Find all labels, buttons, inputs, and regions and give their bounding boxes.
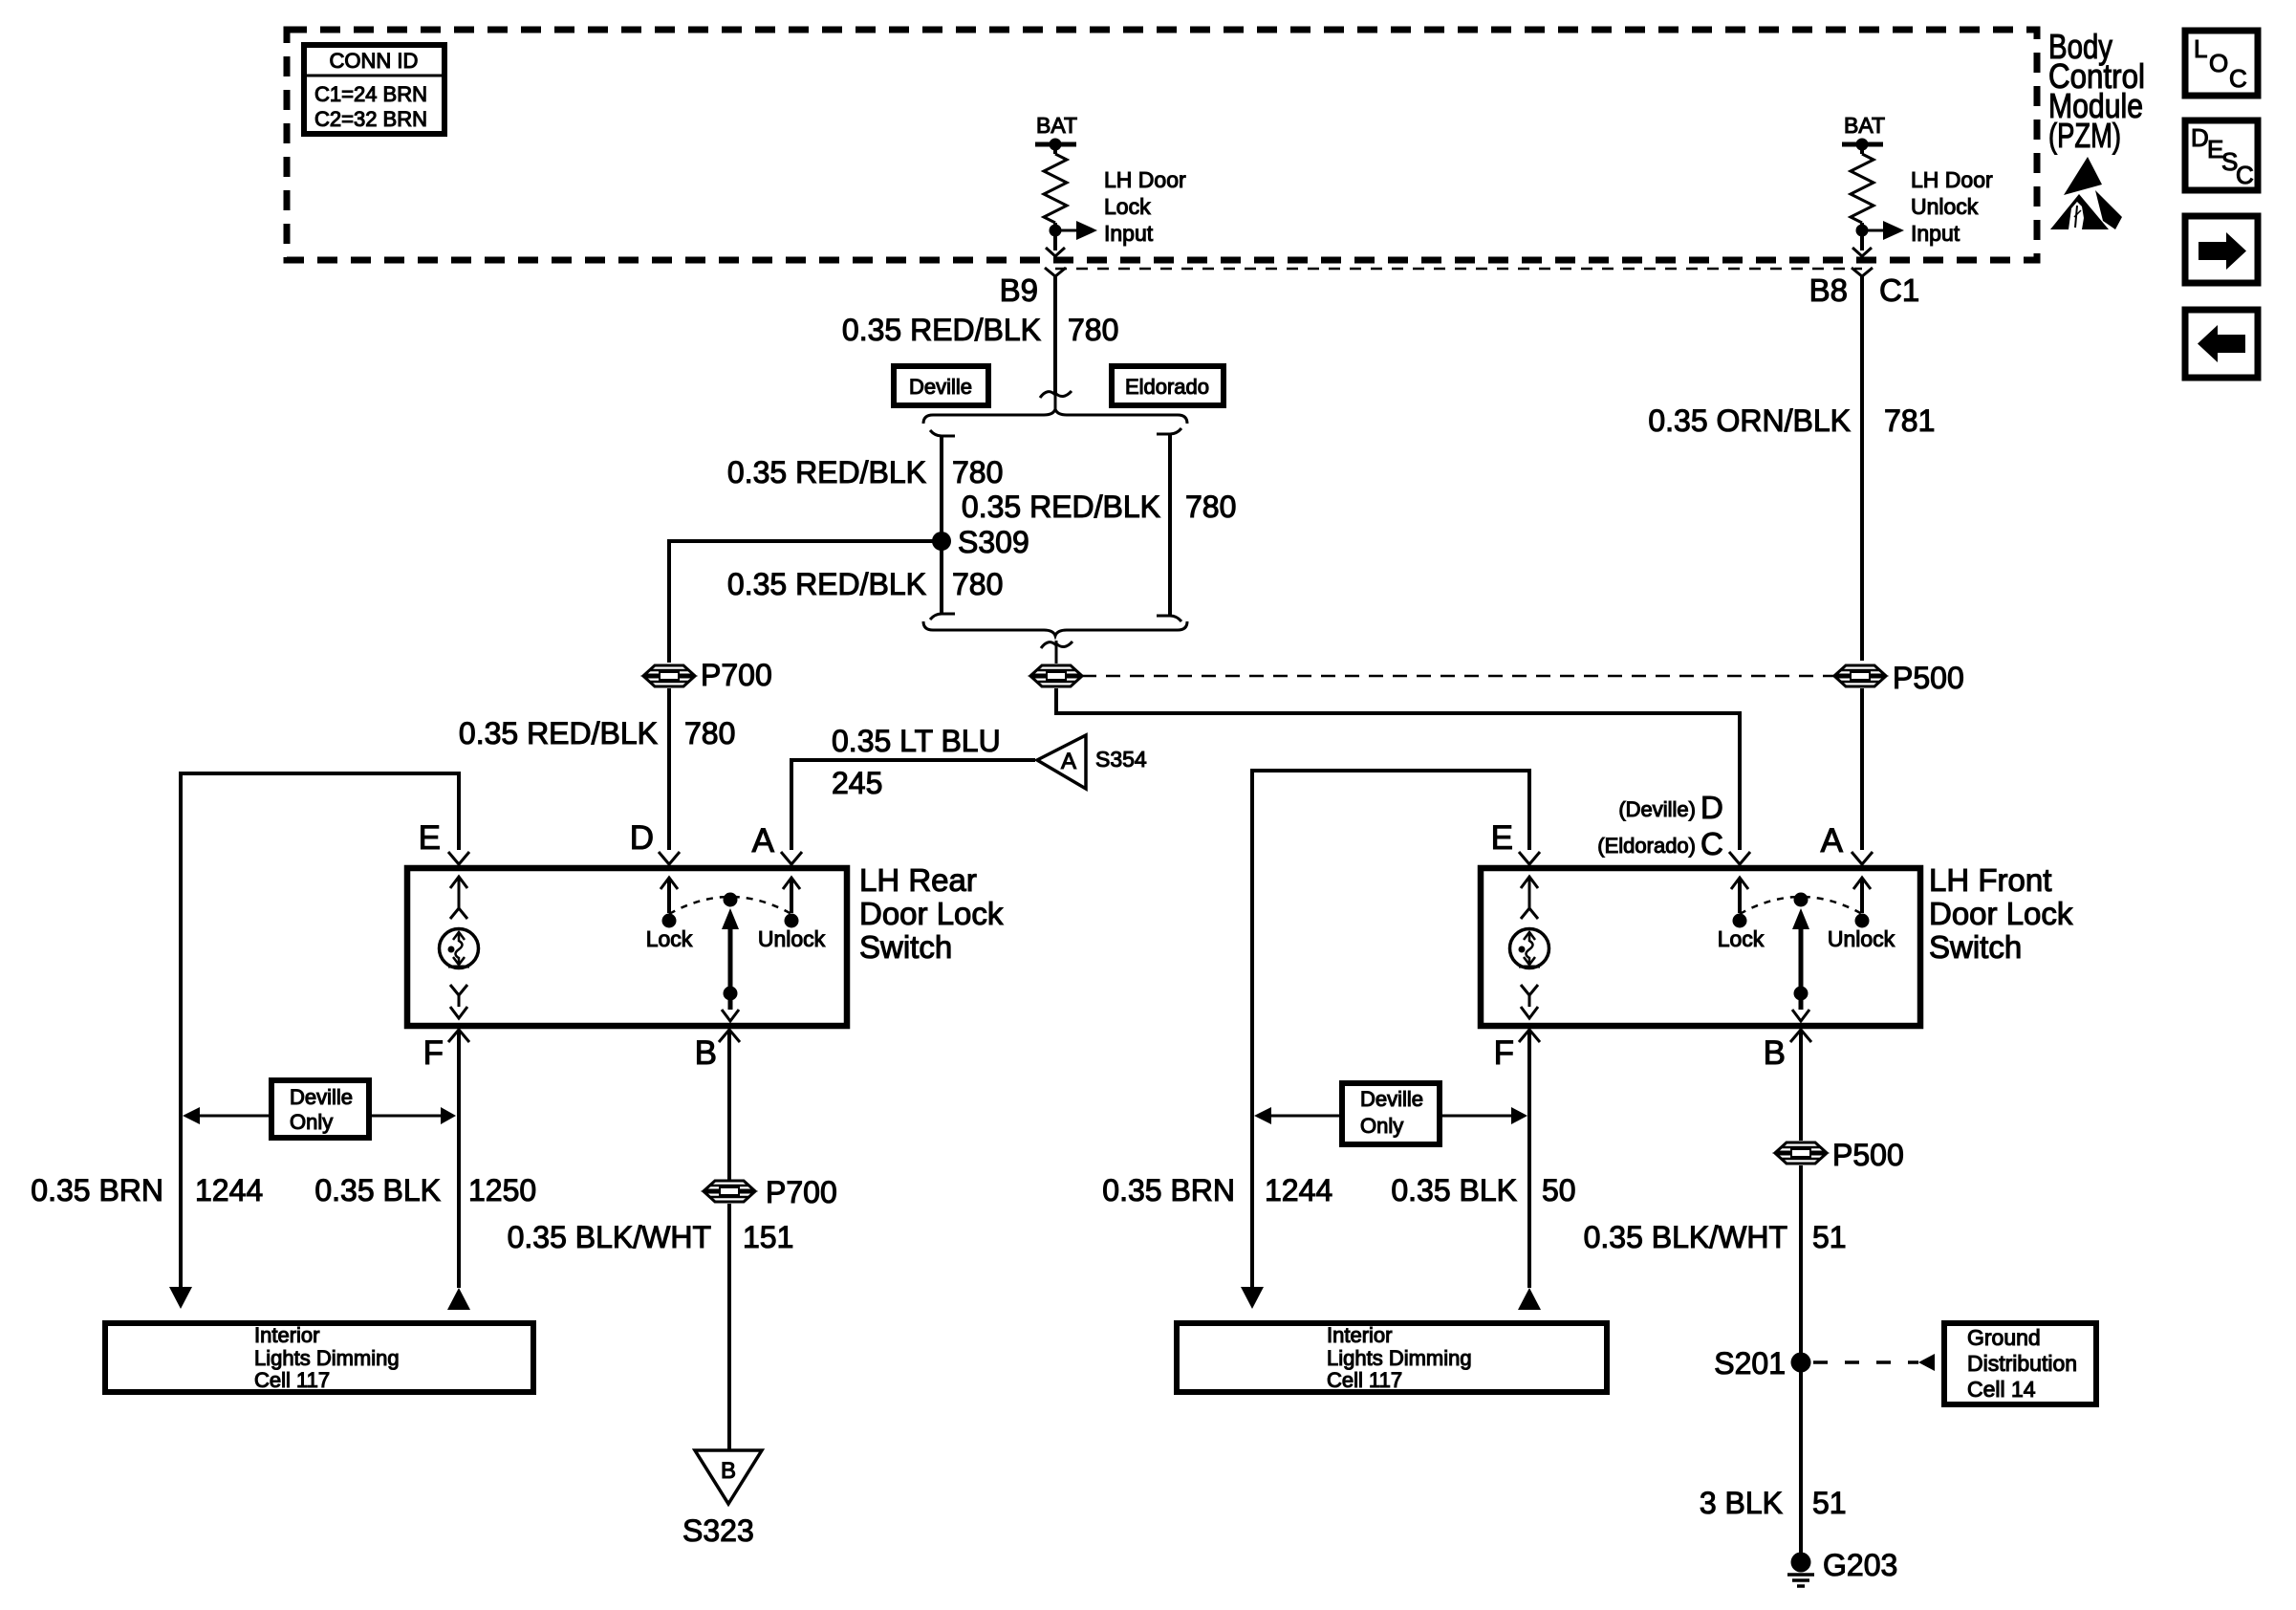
label 0.35 BRN 1244 (right): [1102, 1173, 1332, 1207]
pin B8 arrow into connector: [1852, 248, 1872, 256]
svg-text:1250: 1250: [468, 1173, 536, 1207]
svg-text:Cell 117: Cell 117: [1327, 1368, 1402, 1392]
svg-text:F: F: [423, 1034, 444, 1072]
front switch lamp branch: [1510, 877, 1549, 1018]
svg-text:780: 780: [1068, 313, 1118, 347]
Interior Lights Dimming box (left): [105, 1323, 533, 1392]
svg-text:Deville: Deville: [1360, 1087, 1423, 1111]
svg-text:B8: B8: [1809, 272, 1848, 308]
connector boundary dashed line C1: [1055, 268, 1862, 271]
svg-text:780: 780: [684, 716, 735, 751]
svg-text:LH Door: LH Door: [1911, 167, 1993, 192]
svg-text:C1: C1: [1879, 272, 1919, 308]
inline connector (unnamed): [1031, 665, 1081, 686]
svg-text:C: C: [2236, 161, 2254, 189]
wire 0.35 BLK/WHT 151: [508, 1204, 794, 1449]
pin E (rear): [419, 819, 469, 864]
pin F (rear): [423, 1030, 469, 1072]
wire rear B to P700: [727, 1030, 731, 1180]
svg-text:D: D: [2191, 123, 2209, 152]
wire 0.35 LT BLU 245 to S354: [791, 724, 1035, 850]
svg-text:B9: B9: [1000, 272, 1038, 308]
svg-text:LH Rear: LH Rear: [859, 862, 977, 898]
svg-text:Eldorado: Eldorado: [1125, 375, 1209, 399]
svg-text:S201: S201: [1714, 1346, 1786, 1381]
svg-text:BAT: BAT: [1844, 113, 1885, 138]
svg-text:P700: P700: [701, 658, 772, 692]
rear switch Lock contact: [646, 878, 693, 951]
Eldorado option box: [1112, 366, 1224, 405]
Deville Only arrows (right): [1254, 1107, 1527, 1124]
svg-text:C: C: [1700, 826, 1723, 861]
pin D/C (front): [1597, 790, 1750, 864]
svg-text:Only: Only: [1360, 1114, 1403, 1138]
right arrow icon box: [2185, 216, 2258, 283]
svg-text:P500: P500: [1832, 1138, 1904, 1172]
wire from splice S309 to P700: [669, 541, 942, 663]
option merge brace bottom: [923, 621, 1187, 636]
resistor LH Door Lock Input: [1044, 154, 1067, 250]
svg-text:Distribution: Distribution: [1967, 1351, 2077, 1376]
rear switch toggle: [669, 893, 791, 1022]
svg-text:Switch: Switch: [1929, 929, 2022, 965]
svg-text:(PZM): (PZM): [2048, 116, 2121, 155]
svg-text:LH Door: LH Door: [1104, 167, 1186, 192]
svg-text:Lock: Lock: [646, 926, 693, 951]
Interior Lights Dimming box (right): [1177, 1323, 1607, 1392]
svg-text:F: F: [1494, 1034, 1514, 1072]
resistor LH Door Unlock Input: [1851, 154, 1874, 250]
svg-text:0.35 BLK/WHT: 0.35 BLK/WHT: [1584, 1220, 1787, 1254]
svg-text:0.35 BLK: 0.35 BLK: [314, 1173, 441, 1207]
LH Rear Door Lock Switch box: [407, 862, 1004, 1026]
svg-text:Unlock: Unlock: [1828, 926, 1895, 951]
svg-text:51: 51: [1812, 1486, 1847, 1520]
svg-text:151: 151: [743, 1220, 793, 1254]
LH Front Door Lock Switch box: [1481, 862, 2073, 1026]
front switch toggle: [1740, 893, 1862, 1022]
svg-text:B: B: [721, 1458, 736, 1484]
svg-text:Lights Dimming: Lights Dimming: [1327, 1346, 1472, 1370]
arrow from interior lights (right up): [1518, 1288, 1541, 1310]
wire break symbol: [1040, 391, 1072, 409]
svg-text:(Deville): (Deville): [1618, 797, 1696, 821]
front switch Unlock contact: [1828, 878, 1895, 951]
svg-text:245: 245: [832, 766, 882, 800]
svg-text:B: B: [695, 1034, 717, 1072]
svg-text:Cell 117: Cell 117: [254, 1368, 330, 1392]
svg-text:P500: P500: [1893, 661, 1964, 695]
label 0.35 RED/BLK 780 upper: [727, 455, 1004, 490]
svg-text:Lock: Lock: [1718, 926, 1765, 951]
label 0.35 RED/BLK 780 lower: [727, 567, 1004, 601]
svg-text:S309: S309: [958, 525, 1029, 559]
svg-text:C1=24 BRN: C1=24 BRN: [314, 82, 427, 106]
svg-text:C: C: [2229, 64, 2247, 93]
Body Control Module label: [2048, 27, 2145, 155]
left arrow icon box: [2185, 310, 2258, 378]
svg-text:0.35 BRN: 0.35 BRN: [1102, 1173, 1235, 1207]
pin E (front): [1491, 819, 1540, 864]
pin B8 / connector C1: [1809, 268, 1920, 308]
pin B (front): [1764, 1030, 1811, 1072]
svg-text:Input: Input: [1911, 221, 1960, 246]
svg-text:780: 780: [952, 455, 1003, 490]
svg-text:S323: S323: [682, 1513, 754, 1548]
svg-text:0.35 RED/BLK: 0.35 RED/BLK: [459, 716, 658, 751]
svg-text:BAT: BAT: [1036, 113, 1077, 138]
svg-text:LH Front: LH Front: [1929, 862, 2051, 898]
node BAT (left): [1035, 113, 1077, 154]
pin D (rear): [630, 819, 680, 864]
pin B9: [1000, 268, 1066, 308]
Deville Only arrows (left): [183, 1107, 456, 1124]
svg-text:(Eldorado): (Eldorado): [1597, 834, 1696, 858]
pin B9 arrow into connector: [1046, 248, 1065, 256]
wire Eldorado variant bar 0.35 RED/BLK 780: [962, 428, 1237, 621]
wire P700 to rear switch pin D 0.35 RED/BLK 780: [459, 688, 736, 850]
splice S201: [1714, 1346, 1810, 1381]
svg-text:C2=32 BRN: C2=32 BRN: [314, 107, 427, 131]
wire mid connector to front switch pin D/C: [1056, 688, 1740, 850]
connector P500 (lower): [1776, 1138, 1904, 1172]
svg-text:Door Lock: Door Lock: [1929, 896, 2073, 931]
svg-text:Ground: Ground: [1967, 1325, 2041, 1350]
svg-text:1244: 1244: [1265, 1173, 1332, 1207]
svg-text:0.35 RED/BLK: 0.35 RED/BLK: [842, 313, 1041, 347]
off-page connector S354: [1037, 735, 1147, 789]
label 0.35 BLK 1250: [314, 1173, 536, 1207]
svg-text:0.35 BLK/WHT: 0.35 BLK/WHT: [508, 1220, 711, 1254]
svg-text:0.35 BLK: 0.35 BLK: [1391, 1173, 1517, 1207]
pin B (rear): [695, 1030, 740, 1072]
svg-text:Deville: Deville: [290, 1085, 353, 1109]
node lock input junction + arrow: [1050, 167, 1186, 246]
svg-text:CONN ID: CONN ID: [330, 49, 419, 73]
svg-text:A: A: [1821, 822, 1844, 859]
splice S309: [932, 525, 1029, 559]
wire B8 to P500 0.35 ORN/BLK 781: [1648, 307, 1935, 661]
svg-text:0.35 ORN/BLK: 0.35 ORN/BLK: [1648, 403, 1851, 438]
wire front E to interior lights (right riser): [1252, 771, 1529, 1287]
svg-text:B: B: [1764, 1034, 1786, 1072]
wire rear F down: [457, 1030, 461, 1288]
ground G203: [1787, 1548, 1897, 1586]
svg-text:Lights Dimming: Lights Dimming: [254, 1346, 400, 1370]
connector P500 (upper): [1835, 661, 1964, 695]
svg-text:D: D: [630, 819, 654, 857]
Body Control Module dashed box: [287, 30, 2037, 260]
svg-text:50: 50: [1542, 1173, 1576, 1207]
svg-text:Unlock: Unlock: [1911, 194, 1979, 219]
wire rear E to interior lights (left riser): [181, 773, 459, 1287]
wire front B to P500: [1799, 1030, 1803, 1141]
svg-text:E: E: [419, 819, 441, 857]
node unlock input junction + arrow: [1856, 167, 1993, 246]
Deville option box: [894, 366, 988, 405]
Deville Only box (left): [271, 1080, 369, 1138]
svg-text:O: O: [2209, 49, 2228, 77]
CONN ID table: [304, 45, 444, 134]
svg-text:L: L: [2194, 34, 2207, 63]
dashed pass-through link to P500: [1082, 675, 1834, 678]
svg-text:Deville: Deville: [909, 375, 972, 399]
svg-text:780: 780: [1185, 490, 1236, 524]
svg-text:0.35 RED/BLK: 0.35 RED/BLK: [727, 567, 926, 601]
wire 0.35 BLK/WHT 51: [1584, 1165, 1847, 1553]
pin A (front): [1821, 822, 1873, 864]
svg-text:Door Lock: Door Lock: [859, 896, 1004, 931]
wire break symbol: [1041, 641, 1072, 664]
wire Deville variant bar: [930, 430, 955, 620]
rear switch lamp branch: [440, 877, 479, 1018]
svg-text:0.35 RED/BLK: 0.35 RED/BLK: [962, 490, 1160, 524]
arrow from interior lights (left up): [447, 1288, 470, 1310]
pin A (rear): [752, 822, 802, 864]
svg-text:Interior: Interior: [254, 1323, 319, 1347]
svg-text:780: 780: [952, 567, 1003, 601]
svg-text:0.35 RED/BLK: 0.35 RED/BLK: [727, 455, 926, 490]
arrow into interior lights (left down): [169, 1287, 192, 1309]
label 0.35 BRN 1244 (left): [31, 1173, 263, 1207]
svg-text:Lock: Lock: [1104, 194, 1151, 219]
connector P700 (upper): [644, 658, 772, 692]
arrow into interior lights (right down): [1241, 1287, 1264, 1309]
svg-text:Unlock: Unlock: [758, 926, 826, 951]
svg-text:E: E: [1491, 819, 1513, 857]
DESC icon box: [2185, 120, 2258, 190]
front switch Lock contact: [1718, 878, 1765, 951]
svg-text:Cell 14: Cell 14: [1967, 1377, 2036, 1402]
svg-text:D: D: [1700, 790, 1723, 825]
svg-text:0.35 LT BLU: 0.35 LT BLU: [832, 724, 1001, 758]
label 3 BLK 51: [1700, 1486, 1847, 1520]
svg-text:Only: Only: [290, 1110, 333, 1134]
Ground Distribution Cell 14 box: [1944, 1323, 2096, 1404]
option split brace top: [923, 409, 1187, 424]
rear switch Unlock contact: [758, 878, 826, 951]
svg-text:A: A: [752, 822, 775, 859]
svg-text:3 BLK: 3 BLK: [1700, 1486, 1783, 1520]
label 0.35 BLK 50: [1391, 1173, 1575, 1207]
svg-text:Input: Input: [1104, 221, 1154, 246]
node BAT (right): [1842, 113, 1885, 154]
svg-text:Switch: Switch: [859, 929, 952, 965]
wire B9 0.35 RED/BLK 780: [842, 307, 1119, 393]
ESD sensitivity icon: [2050, 157, 2122, 229]
pin F (front): [1494, 1030, 1540, 1072]
svg-text:G203: G203: [1823, 1548, 1897, 1582]
connector P700 (lower): [704, 1175, 837, 1209]
dashed link S201 to ground distribution: [1813, 1354, 1935, 1371]
LOC icon box: [2185, 31, 2258, 96]
svg-text:Interior: Interior: [1327, 1323, 1392, 1347]
svg-text:51: 51: [1812, 1220, 1847, 1254]
wire front F down: [1527, 1030, 1531, 1288]
svg-text:1244: 1244: [195, 1173, 263, 1207]
wire P500 to front switch pin A: [1860, 688, 1864, 850]
svg-text:0.35 BRN: 0.35 BRN: [31, 1173, 163, 1207]
svg-text:A: A: [1061, 749, 1076, 774]
splice S323 off-page triangle: [682, 1450, 762, 1548]
svg-text:S354: S354: [1095, 747, 1147, 772]
svg-text:P700: P700: [766, 1175, 837, 1209]
Deville Only box (right): [1342, 1083, 1440, 1144]
svg-text:781: 781: [1884, 403, 1935, 438]
